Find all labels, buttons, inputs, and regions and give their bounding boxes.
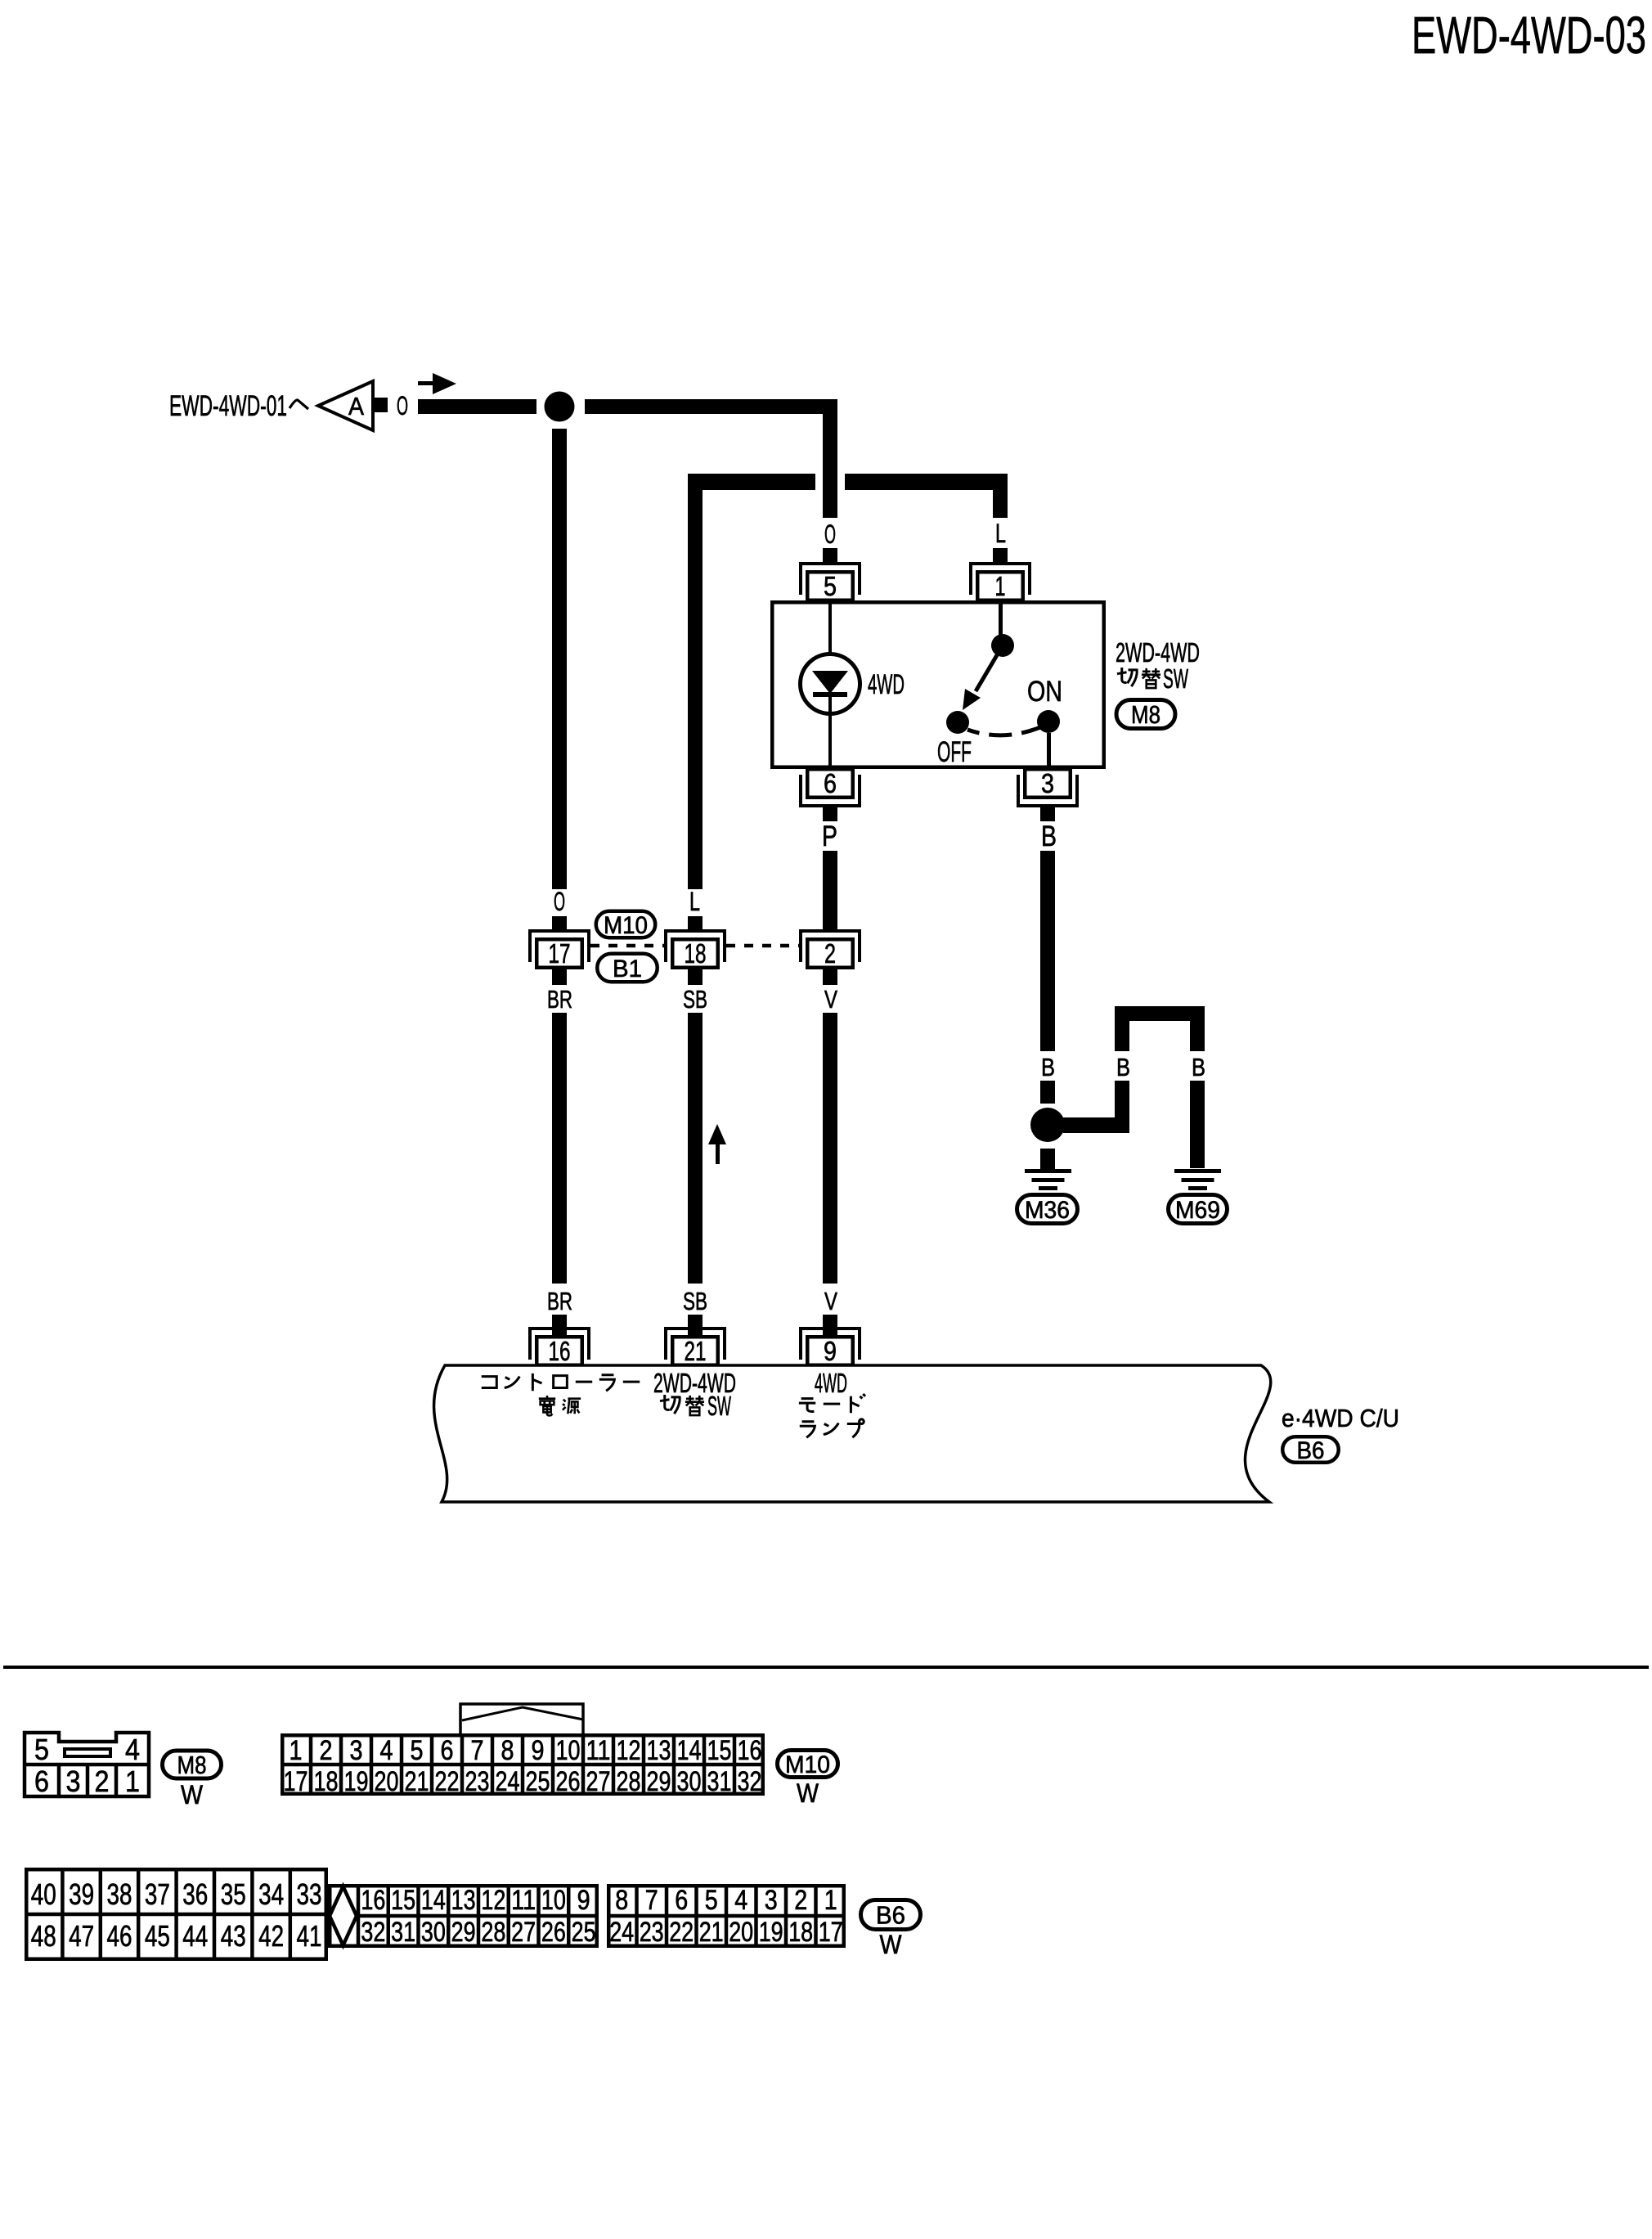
wire stub below connector 18 [688, 969, 703, 985]
svg-text:20: 20 [375, 1766, 399, 1797]
svg-text:48: 48 [31, 1919, 56, 1953]
svg-text:21: 21 [699, 1917, 724, 1948]
svg-text:L: L [995, 519, 1006, 548]
svg-text:26: 26 [541, 1917, 566, 1948]
svg-text:16: 16 [738, 1735, 762, 1766]
svg-text:23: 23 [640, 1917, 664, 1948]
2WD-4WD switch box M8 [772, 602, 1104, 767]
svg-text:9: 9 [577, 1885, 590, 1916]
svg-text:6: 6 [441, 1735, 454, 1766]
svg-text:36: 36 [182, 1877, 208, 1911]
svg-text:13: 13 [451, 1885, 476, 1916]
svg-text:BR: BR [547, 985, 572, 1014]
svg-text:2: 2 [794, 1885, 807, 1916]
connector face M10 hood [460, 1704, 583, 1735]
svg-text:20: 20 [729, 1917, 753, 1948]
svg-text:11: 11 [586, 1735, 611, 1766]
svg-text:SB: SB [683, 985, 707, 1014]
svg-text:B: B [1192, 1053, 1205, 1081]
svg-text:29: 29 [451, 1917, 476, 1948]
wire B jumper vertical up [1115, 1081, 1129, 1133]
connector face B6 left grid [25, 1868, 328, 1961]
svg-text:5: 5 [705, 1885, 718, 1916]
connector oval B6 [1282, 1436, 1339, 1464]
flow direction arrow up [708, 1124, 726, 1164]
svg-text:M69: M69 [1175, 1197, 1220, 1224]
connector M8 pin 1 [969, 562, 1031, 601]
svg-text:V: V [824, 1287, 837, 1315]
connector M10/B1 pin 17 [528, 929, 590, 969]
4WD indicator LED [801, 654, 860, 717]
connector M8 pin 5 [799, 562, 861, 601]
switch OFF contact [946, 711, 969, 734]
wire stub below connector 2 [823, 969, 837, 985]
wire stub above pin 9 [823, 1315, 837, 1335]
svg-text:15: 15 [391, 1885, 415, 1916]
wire O horizontal (left of junction) [418, 399, 536, 414]
svg-text:27: 27 [511, 1917, 536, 1948]
svg-text:34: 34 [258, 1877, 284, 1911]
wire B jumper top bar [1115, 1006, 1205, 1021]
connector M10/B1 pin 2 [799, 929, 861, 969]
wire L horizontal branch (right part) [845, 474, 1008, 490]
svg-text:B: B [1116, 1053, 1130, 1081]
svg-text:9: 9 [532, 1735, 545, 1766]
svg-text:31: 31 [707, 1766, 732, 1797]
svg-text:17: 17 [284, 1766, 308, 1797]
connector B6 pin 9 [799, 1327, 861, 1366]
label 切替SW [1117, 663, 1189, 694]
svg-text:40: 40 [31, 1877, 56, 1911]
svg-text:2: 2 [320, 1735, 333, 1766]
wire stub below pin 3 [1040, 807, 1055, 821]
svg-text:18: 18 [314, 1766, 339, 1797]
wire BR vertical [552, 1013, 567, 1284]
svg-text:27: 27 [586, 1766, 611, 1797]
svg-text:22: 22 [435, 1766, 460, 1797]
svg-text:47: 47 [69, 1919, 94, 1953]
wire O horizontal (junction to corner) [585, 399, 837, 414]
svg-text:O: O [397, 391, 408, 420]
svg-text:O: O [554, 887, 565, 916]
svg-text:14: 14 [421, 1885, 446, 1916]
svg-text:A: A [348, 392, 364, 420]
svg-text:5: 5 [824, 571, 837, 601]
svg-text:28: 28 [481, 1917, 505, 1948]
svg-text:11: 11 [511, 1885, 536, 1916]
connector oval M8 [1116, 700, 1175, 730]
wire O vertical (corner to pin 5) [823, 399, 837, 518]
svg-text:4: 4 [380, 1735, 393, 1766]
svg-text:EWD-4WD-01: EWD-4WD-01 [169, 390, 287, 422]
svg-text:19: 19 [759, 1917, 783, 1948]
wire B jumper upper left leg [1115, 1021, 1129, 1051]
svg-text:6: 6 [824, 768, 837, 798]
LED wire to pin 6 [828, 716, 832, 767]
svg-text:1: 1 [824, 1885, 837, 1916]
svg-text:24: 24 [496, 1766, 520, 1797]
svg-text:33: 33 [297, 1877, 322, 1911]
svg-text:3: 3 [66, 1765, 81, 1798]
switch wire ON to pin 3 [1047, 733, 1051, 767]
svg-text:32: 32 [738, 1766, 762, 1797]
svg-text:39: 39 [69, 1877, 94, 1911]
svg-text:OFF: OFF [937, 736, 972, 768]
svg-text:31: 31 [391, 1917, 415, 1948]
connector B6 pin 21 [664, 1327, 726, 1366]
switch common contact [991, 634, 1014, 657]
svg-text:19: 19 [344, 1766, 369, 1797]
svg-text:25: 25 [526, 1766, 550, 1797]
wire L horizontal branch (left part) [688, 474, 815, 490]
svg-text:22: 22 [669, 1917, 694, 1948]
svg-text:1: 1 [290, 1735, 303, 1766]
svg-text:30: 30 [421, 1917, 446, 1948]
svg-text:4: 4 [125, 1733, 140, 1766]
svg-text:5: 5 [34, 1733, 49, 1766]
svg-text:W: W [797, 1778, 819, 1808]
svg-text:6: 6 [34, 1765, 49, 1798]
svg-text:M10: M10 [785, 1751, 830, 1778]
svg-text:28: 28 [617, 1766, 641, 1797]
connector face M10 [281, 1733, 765, 1797]
wire stub below pin 6 [823, 807, 837, 821]
wire O vertical down from junction [552, 429, 567, 889]
svg-text:30: 30 [677, 1766, 702, 1797]
svg-text:3: 3 [1041, 768, 1054, 798]
svg-text:13: 13 [647, 1735, 671, 1766]
ground oval M69 [1169, 1195, 1228, 1224]
svg-text:18: 18 [788, 1917, 813, 1948]
svg-text:8: 8 [501, 1735, 514, 1766]
wire stub above pin 16 [552, 1315, 567, 1335]
svg-text:44: 44 [182, 1919, 208, 1953]
svg-text:2: 2 [95, 1765, 110, 1798]
wire L vertical down [688, 490, 703, 889]
svg-text:25: 25 [572, 1917, 596, 1948]
svg-text:12: 12 [481, 1885, 505, 1916]
wire SB vertical [688, 1013, 703, 1284]
label ランプ [800, 1419, 864, 1437]
e-4WD control unit box B6 [434, 1365, 1271, 1502]
svg-text:V: V [824, 985, 837, 1014]
switch travel dashed arc [967, 727, 1040, 735]
svg-text:SB: SB [683, 1287, 707, 1315]
switch common wire from pin 1 [999, 604, 1003, 636]
off-page connector triangle A [318, 381, 373, 430]
svg-text:1: 1 [995, 571, 1006, 601]
connector face M8 [25, 1733, 149, 1798]
svg-text:18: 18 [685, 938, 707, 969]
svg-text:BR: BR [547, 1287, 572, 1315]
svg-text:e·4WD C/U: e·4WD C/U [1282, 1404, 1399, 1432]
svg-text:SW: SW [1163, 663, 1188, 694]
junction node [545, 392, 575, 422]
ground symbol M36 [1025, 1169, 1071, 1190]
wire stub below connector 17 [552, 969, 567, 985]
svg-text:W: W [880, 1930, 903, 1959]
svg-text:32: 32 [361, 1917, 385, 1948]
wire B jumper right leg upper [1190, 1021, 1205, 1051]
svg-text:43: 43 [221, 1919, 246, 1953]
svg-text:10: 10 [541, 1885, 566, 1916]
splice dashed line 18-2 [726, 944, 799, 948]
svg-text:6: 6 [675, 1885, 688, 1916]
svg-text:M36: M36 [1025, 1197, 1070, 1224]
svg-text:37: 37 [145, 1877, 170, 1911]
label モード [799, 1394, 865, 1413]
svg-text:35: 35 [221, 1877, 246, 1911]
svg-text:16: 16 [361, 1885, 385, 1916]
label 切替SW [660, 1391, 731, 1421]
svg-text:45: 45 [145, 1919, 170, 1953]
connector face B6 right grid (pins 8-1 / 24-17) [607, 1884, 846, 1948]
connector M10/B1 pin 18 [664, 929, 726, 969]
svg-text:B: B [1041, 821, 1057, 852]
svg-text:4WD: 4WD [815, 1368, 847, 1398]
svg-text:3: 3 [350, 1735, 363, 1766]
connector oval B1 [597, 954, 658, 982]
svg-text:4WD: 4WD [868, 669, 905, 700]
svg-text:14: 14 [677, 1735, 702, 1766]
switch ON contact [1037, 710, 1060, 733]
ground symbol M69 [1174, 1169, 1221, 1190]
svg-text:1: 1 [125, 1765, 140, 1798]
4WD indicator LED wire [828, 604, 832, 654]
connector B6 pin 16 [528, 1327, 590, 1366]
svg-text:3: 3 [765, 1885, 778, 1916]
wire V vertical [823, 1013, 837, 1284]
wire stub above pin 1 [993, 548, 1008, 562]
wire L vertical (corner to pin 1) [993, 490, 1008, 518]
label コントローラー [482, 1374, 640, 1391]
svg-text:M10: M10 [604, 912, 648, 939]
connector M8 pin 6 [799, 768, 861, 807]
ground junction node [1030, 1108, 1065, 1142]
svg-text:24: 24 [609, 1917, 634, 1948]
wire stub to ground M36 [1040, 1149, 1055, 1169]
svg-text:9: 9 [824, 1336, 837, 1366]
svg-text:5: 5 [411, 1735, 424, 1766]
svg-text:2: 2 [824, 938, 836, 969]
connector oval M8 (face) [163, 1751, 222, 1779]
svg-text:17: 17 [549, 938, 571, 969]
svg-text:4: 4 [734, 1885, 747, 1916]
svg-text:7: 7 [471, 1735, 484, 1766]
wire B right leg to ground M69 [1190, 1081, 1205, 1168]
svg-text:21: 21 [685, 1336, 707, 1366]
connector face B6 right grid (pins 16-9 / 32-25) [330, 1884, 599, 1948]
svg-text:W: W [181, 1780, 204, 1810]
svg-text:B1: B1 [613, 955, 642, 982]
wire stub above pin 21 [688, 1315, 703, 1335]
wire P vertical [823, 851, 837, 929]
switch movable arm with arrowhead [963, 645, 1003, 710]
wire B jumper horizontal [1063, 1117, 1129, 1133]
svg-text:21: 21 [405, 1766, 429, 1797]
svg-text:15: 15 [707, 1735, 732, 1766]
svg-text:M8: M8 [1131, 700, 1160, 729]
svg-text:26: 26 [556, 1766, 581, 1797]
splice dashed line 17-18 [590, 944, 664, 948]
wire stub above connector 18 [688, 916, 703, 930]
wire stub above connector 17 [552, 916, 567, 930]
svg-text:10: 10 [556, 1735, 581, 1766]
svg-text:46: 46 [107, 1919, 132, 1953]
svg-text:23: 23 [465, 1766, 490, 1797]
svg-text:38: 38 [107, 1877, 132, 1911]
svg-text:29: 29 [647, 1766, 671, 1797]
svg-text:17: 17 [819, 1917, 843, 1948]
wire stub above pin 5 [823, 548, 837, 562]
svg-text:B6: B6 [876, 1901, 905, 1930]
svg-text:8: 8 [615, 1885, 628, 1916]
svg-text:42: 42 [258, 1919, 284, 1953]
svg-text:M8: M8 [177, 1751, 207, 1779]
svg-text:P: P [822, 821, 837, 852]
ground oval M36 [1017, 1195, 1078, 1224]
connector oval M10 (face) [778, 1751, 838, 1778]
connector oval M10 [596, 911, 656, 939]
svg-text:O: O [824, 519, 836, 549]
connector oval B6 (face) [861, 1900, 921, 1930]
wire stub above ground junction [1040, 1081, 1055, 1104]
svg-text:B6: B6 [1297, 1437, 1325, 1464]
svg-text:ON: ON [1027, 676, 1062, 708]
separator line [3, 1666, 1649, 1669]
svg-text:B: B [1041, 1053, 1055, 1081]
svg-text:L: L [689, 887, 700, 916]
flow direction arrow right [418, 373, 456, 394]
svg-text:41: 41 [297, 1919, 322, 1953]
connector face B6 keyway diamond [330, 1886, 357, 1945]
svg-text:SW: SW [707, 1391, 731, 1421]
svg-text:7: 7 [645, 1885, 658, 1916]
label 電源 [539, 1396, 581, 1415]
wire stub from connector A [373, 398, 388, 412]
off-page reference label EWD-4WD-01 [169, 390, 308, 422]
svg-text:12: 12 [617, 1735, 641, 1766]
svg-text:EWD-4WD-03: EWD-4WD-03 [1412, 6, 1646, 65]
wire B vertical [1040, 851, 1055, 1051]
connector M8 pin 3 [1017, 768, 1079, 807]
svg-text:16: 16 [549, 1336, 571, 1366]
